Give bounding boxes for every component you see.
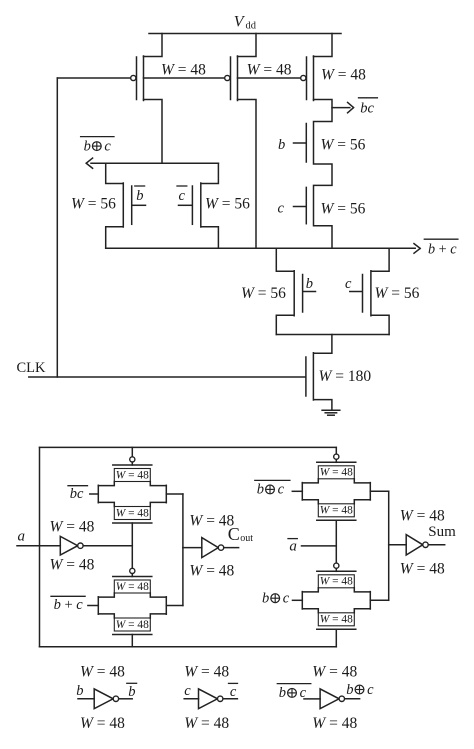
svg-text:c: c — [283, 591, 290, 607]
svg-text:W = 48: W = 48 — [400, 560, 445, 577]
svg-text:W = 56: W = 56 — [241, 285, 286, 302]
svg-text:b: b — [346, 682, 353, 698]
svg-text:W = 56: W = 56 — [71, 196, 116, 213]
svg-text:c: c — [345, 276, 352, 292]
svg-text:W = 48: W = 48 — [116, 507, 149, 519]
svg-text:W = 48: W = 48 — [161, 62, 206, 79]
svg-text:W = 48: W = 48 — [320, 467, 353, 479]
svg-text:W = 48: W = 48 — [80, 715, 125, 732]
svg-text:W = 48: W = 48 — [50, 518, 95, 535]
svg-text:b: b — [306, 276, 313, 292]
svg-text:W = 48: W = 48 — [116, 469, 149, 481]
svg-text:c: c — [230, 684, 237, 700]
svg-text:bc: bc — [360, 101, 374, 117]
svg-text:W = 48: W = 48 — [116, 619, 149, 631]
svg-text:W = 48: W = 48 — [320, 505, 353, 517]
svg-text:W = 48: W = 48 — [400, 508, 445, 525]
svg-text:b: b — [128, 684, 135, 700]
svg-text:W = 48: W = 48 — [184, 664, 229, 681]
svg-text:CLK: CLK — [17, 360, 47, 376]
svg-text:b: b — [278, 137, 285, 153]
svg-text:W = 48: W = 48 — [321, 67, 366, 84]
svg-text:W = 48: W = 48 — [312, 715, 357, 732]
svg-text:W = 48: W = 48 — [320, 614, 353, 626]
svg-text:W = 180: W = 180 — [319, 368, 372, 385]
svg-text:c: c — [278, 201, 285, 217]
svg-text:b: b — [136, 188, 143, 204]
svg-text:b: b — [279, 685, 286, 701]
svg-text:W = 56: W = 56 — [375, 285, 420, 302]
svg-text:W = 48: W = 48 — [184, 715, 229, 732]
svg-text:W = 48: W = 48 — [189, 563, 234, 580]
svg-text:c: c — [300, 685, 307, 701]
svg-text:a: a — [289, 539, 297, 555]
svg-text:W = 56: W = 56 — [321, 201, 366, 218]
svg-text:b: b — [257, 482, 264, 498]
svg-text:c: c — [104, 138, 111, 154]
svg-text:c: c — [367, 682, 374, 698]
svg-text:dd: dd — [246, 21, 257, 32]
svg-text:W = 56: W = 56 — [321, 137, 366, 154]
svg-text:c: c — [184, 683, 191, 699]
svg-text:bc: bc — [70, 486, 84, 502]
svg-text:b: b — [84, 138, 91, 154]
svg-text:b: b — [76, 683, 83, 699]
svg-text:b: b — [262, 591, 269, 607]
svg-text:W = 48: W = 48 — [189, 512, 234, 529]
svg-text:W = 48: W = 48 — [80, 664, 125, 681]
svg-text:b + c: b + c — [428, 242, 457, 258]
svg-text:W = 48: W = 48 — [320, 576, 353, 588]
svg-text:W = 48: W = 48 — [50, 557, 95, 574]
svg-text:W = 48: W = 48 — [247, 62, 292, 79]
svg-text:b + c: b + c — [54, 597, 84, 613]
svg-text:c: c — [278, 482, 285, 498]
svg-text:out: out — [240, 533, 253, 544]
svg-text:W = 48: W = 48 — [116, 581, 149, 593]
svg-text:W = 56: W = 56 — [205, 196, 250, 213]
svg-text:W = 48: W = 48 — [312, 664, 357, 681]
svg-text:a: a — [18, 529, 26, 545]
svg-text:Sum: Sum — [428, 524, 456, 540]
svg-text:c: c — [179, 188, 186, 204]
